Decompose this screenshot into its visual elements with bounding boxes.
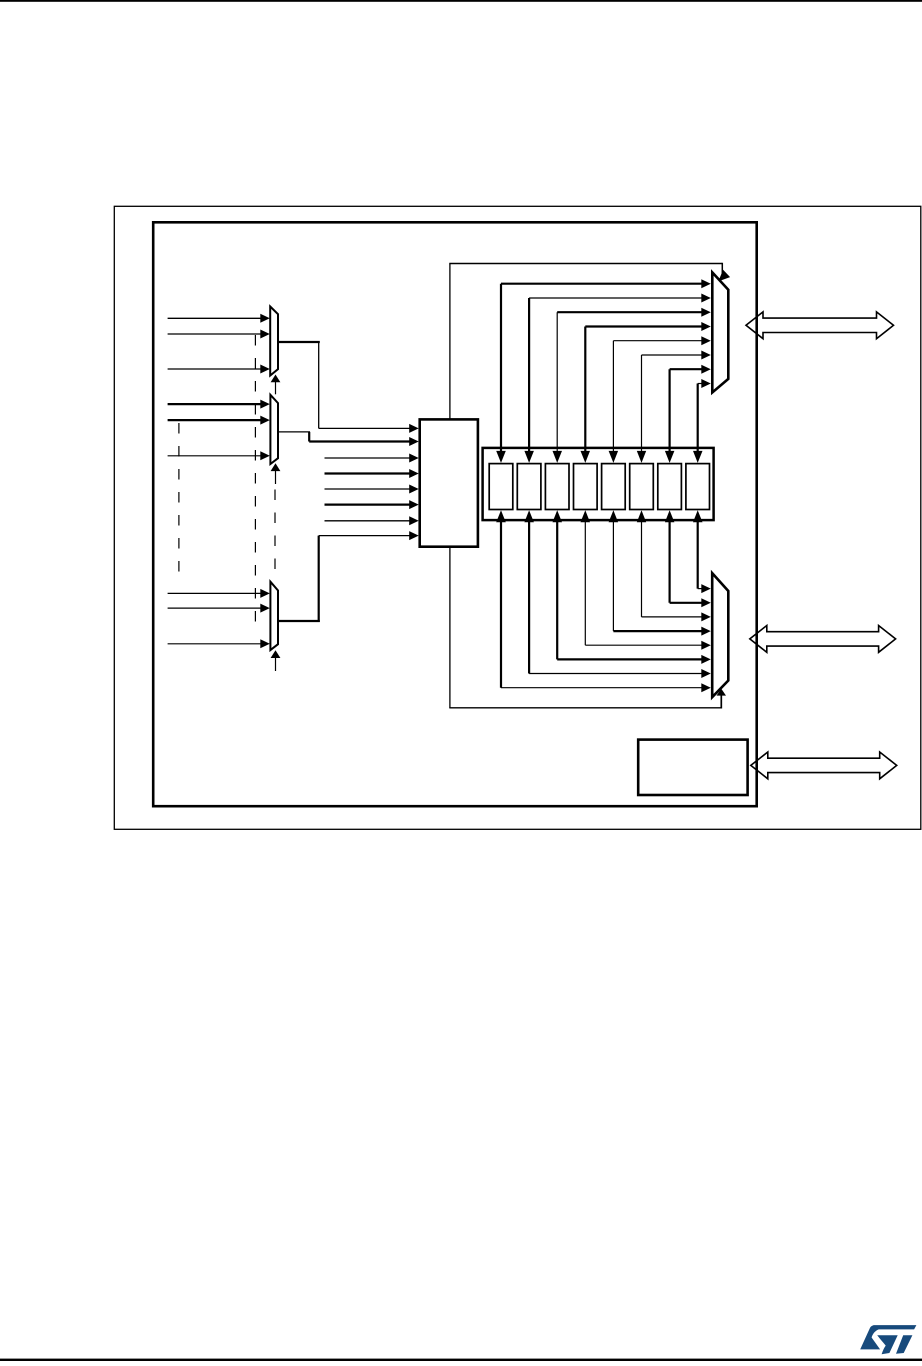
wire CH6 peripheral port (641, 521, 643, 617)
wire CH7 memory port (670, 368, 703, 370)
wire CH1 peripheral port (500, 521, 502, 688)
dashed continuation line A (178, 423, 180, 576)
channel CH1 (489, 464, 513, 510)
top rule (0, 0, 922, 2)
memory bus mux (712, 272, 728, 392)
M3 select arrow (275, 657, 277, 671)
wire M3 output to arbiter (278, 620, 320, 622)
channels block (483, 448, 714, 520)
channel CH4 (574, 464, 598, 510)
wire M1 output to arbiter (278, 341, 320, 343)
peripheral bus mux (712, 573, 728, 697)
request inputs to M3 (168, 592, 261, 594)
memory bus arrow (746, 312, 894, 339)
wire CH2 memory port (529, 297, 702, 299)
wire CH4 peripheral port (584, 521, 586, 646)
wire CH3 memory port (557, 311, 702, 313)
request inputs to M2 (168, 403, 261, 405)
wire CH6 memory port (642, 354, 703, 356)
bottom rule (0, 1359, 922, 1361)
channel CH6 (630, 464, 654, 510)
AHB system bus arrow (751, 752, 897, 779)
wire CH1 memory port (501, 283, 703, 285)
wire CH7 peripheral port (668, 521, 670, 603)
request mux M1 (270, 307, 278, 376)
AHB slave block (638, 740, 747, 795)
arbiter block (420, 419, 478, 546)
M1 select arrow (275, 382, 277, 395)
request inputs to M1 (168, 317, 261, 319)
dashed continuation line B (254, 335, 256, 626)
wire CH5 peripheral port (612, 521, 614, 632)
request mux M3 (270, 582, 278, 650)
M2 select arrow (275, 470, 277, 484)
wire arbiter to memory-bus mux (449, 264, 451, 420)
channel CH2 (517, 464, 541, 510)
wire arbiter to peripheral-bus mux (449, 547, 451, 708)
hardware request wires to arbiter (325, 457, 411, 459)
channel CH8 (686, 464, 710, 510)
figure frame (114, 206, 921, 829)
wire CH2 peripheral port (528, 521, 530, 674)
wire M2 output to arbiter (278, 431, 310, 433)
wire CH3 peripheral port (556, 521, 558, 660)
wire CH5 memory port (613, 340, 702, 342)
request mux M2 (270, 395, 278, 464)
wire CH8 memory port (698, 383, 703, 385)
channel CH7 (658, 464, 682, 510)
ST logo (860, 1325, 916, 1354)
channel CH3 (545, 464, 569, 510)
wire CH8 peripheral port (697, 521, 699, 589)
M2 select dashed continuation (274, 490, 276, 574)
DMA block boundary (153, 222, 757, 806)
channel CH5 (602, 464, 626, 510)
peripheral bus arrow (750, 626, 896, 653)
wire CH4 memory port (585, 325, 702, 327)
